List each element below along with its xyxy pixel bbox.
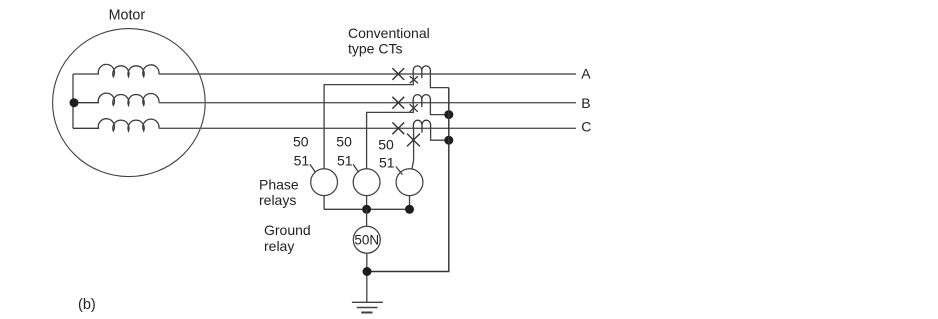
svg-text:C: C — [581, 119, 591, 135]
svg-text:relay: relay — [264, 238, 294, 254]
svg-text:Phase: Phase — [259, 176, 299, 192]
wire phase A line — [159, 73, 576, 75]
svg-text:Ground: Ground — [264, 222, 311, 238]
CT primary mark X phase A — [392, 68, 404, 80]
wire ground relay to ground — [366, 253, 368, 302]
node CT2 return junction — [444, 110, 453, 119]
svg-text:B: B — [581, 95, 590, 111]
leader line relay3 — [396, 167, 403, 175]
svg-text:50: 50 — [293, 134, 309, 150]
svg-text:51: 51 — [294, 152, 310, 168]
phase relay 3 (50/51) — [396, 169, 423, 196]
wire CT2 secondary left lead to relay 2 — [367, 103, 414, 169]
CT primary mark X phase B — [392, 97, 404, 109]
wire phase C line — [159, 127, 576, 129]
phase relay 1 (50/51) — [311, 169, 338, 196]
leader line relay1 — [310, 164, 316, 172]
phase relay 2 (50/51) — [353, 169, 380, 196]
svg-text:51: 51 — [379, 155, 395, 171]
wire relay common bus — [324, 208, 409, 210]
CT3 polarity mark x — [407, 134, 420, 147]
wire to ground relay — [366, 209, 368, 226]
wire CT1 secondary right lead — [430, 74, 448, 88]
CT2 polarity mark x — [410, 104, 418, 112]
svg-text:relays: relays — [259, 192, 296, 208]
motor winding phase B — [73, 93, 159, 105]
wire relay1 bottom lead — [323, 196, 325, 210]
wire CT3 secondary left lead to relay 3 — [412, 128, 414, 169]
wire CT secondary return bus — [367, 88, 449, 272]
node ground junction — [363, 267, 372, 276]
svg-text:50: 50 — [378, 137, 394, 153]
motor winding phase A — [73, 64, 159, 76]
motor M1 — [53, 29, 206, 177]
svg-text:Conventional: Conventional — [348, 25, 430, 41]
svg-text:type CTs: type CTs — [348, 41, 402, 57]
wire phase B line — [159, 102, 576, 104]
ground — [352, 302, 383, 312]
motor winding phase C — [73, 119, 159, 131]
wire CT2 secondary right lead — [430, 103, 448, 115]
CT2 secondary coil — [413, 95, 430, 107]
svg-text:50N: 50N — [354, 233, 379, 248]
CT1 polarity mark x — [410, 76, 418, 83]
svg-text:50: 50 — [336, 134, 352, 150]
svg-text:Motor: Motor — [109, 7, 146, 23]
CT primary mark X phase C — [392, 122, 404, 134]
node relay common junction — [362, 205, 371, 214]
wire CT3 secondary right lead — [431, 128, 449, 140]
svg-text:(b): (b) — [78, 297, 96, 313]
svg-text:51: 51 — [337, 152, 353, 168]
node motor neutral junction — [70, 98, 79, 107]
node relay3 junction — [405, 205, 414, 214]
CT3 secondary coil — [413, 120, 430, 132]
wire CT1 secondary left lead to relay 1 — [324, 74, 413, 169]
leader line relay2 — [353, 164, 359, 172]
wire neutral bar — [72, 74, 74, 128]
svg-text:A: A — [581, 66, 591, 82]
wire relay3 bottom lead — [409, 196, 411, 210]
node CT3 return junction — [444, 136, 453, 145]
wire relay2 bottom lead — [366, 196, 368, 210]
ground relay 50N — [353, 226, 380, 253]
CT1 secondary coil — [413, 66, 430, 78]
